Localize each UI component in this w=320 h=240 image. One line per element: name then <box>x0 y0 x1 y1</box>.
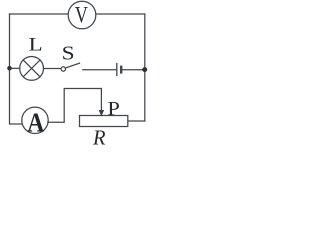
svg-text:V: V <box>75 2 88 27</box>
slider arrowhead P <box>99 110 104 117</box>
voltmeter U1 circle <box>68 1 96 29</box>
junction node left <box>7 66 12 71</box>
slider arrow shaft <box>100 89 102 112</box>
lamp L circle <box>20 57 44 81</box>
switch S lever <box>65 63 79 68</box>
wire left side <box>10 14 23 124</box>
svg-text:P: P <box>107 98 120 120</box>
svg-text:A: A <box>27 107 44 137</box>
battery short plate <box>120 67 122 73</box>
wire switch to battery <box>83 69 116 71</box>
switch S pivot <box>61 67 65 71</box>
wire top right <box>96 13 145 15</box>
wire top left <box>10 13 69 15</box>
svg-text:R: R <box>92 125 106 149</box>
svg-text:L: L <box>29 34 43 55</box>
wire lamp to switch <box>43 68 61 70</box>
wire battery to right junction <box>123 69 145 71</box>
ammeter A circle <box>22 107 48 133</box>
wire junction to lamp <box>10 67 20 69</box>
wire rheostat to right side <box>128 120 145 122</box>
rheostat R box <box>80 116 128 127</box>
battery long plate <box>116 64 118 76</box>
wire ammeter to slider arm <box>48 89 102 123</box>
junction node right <box>142 67 147 72</box>
wire right side <box>144 14 146 121</box>
lamp L cross <box>23 60 40 77</box>
svg-text:S: S <box>62 42 75 64</box>
